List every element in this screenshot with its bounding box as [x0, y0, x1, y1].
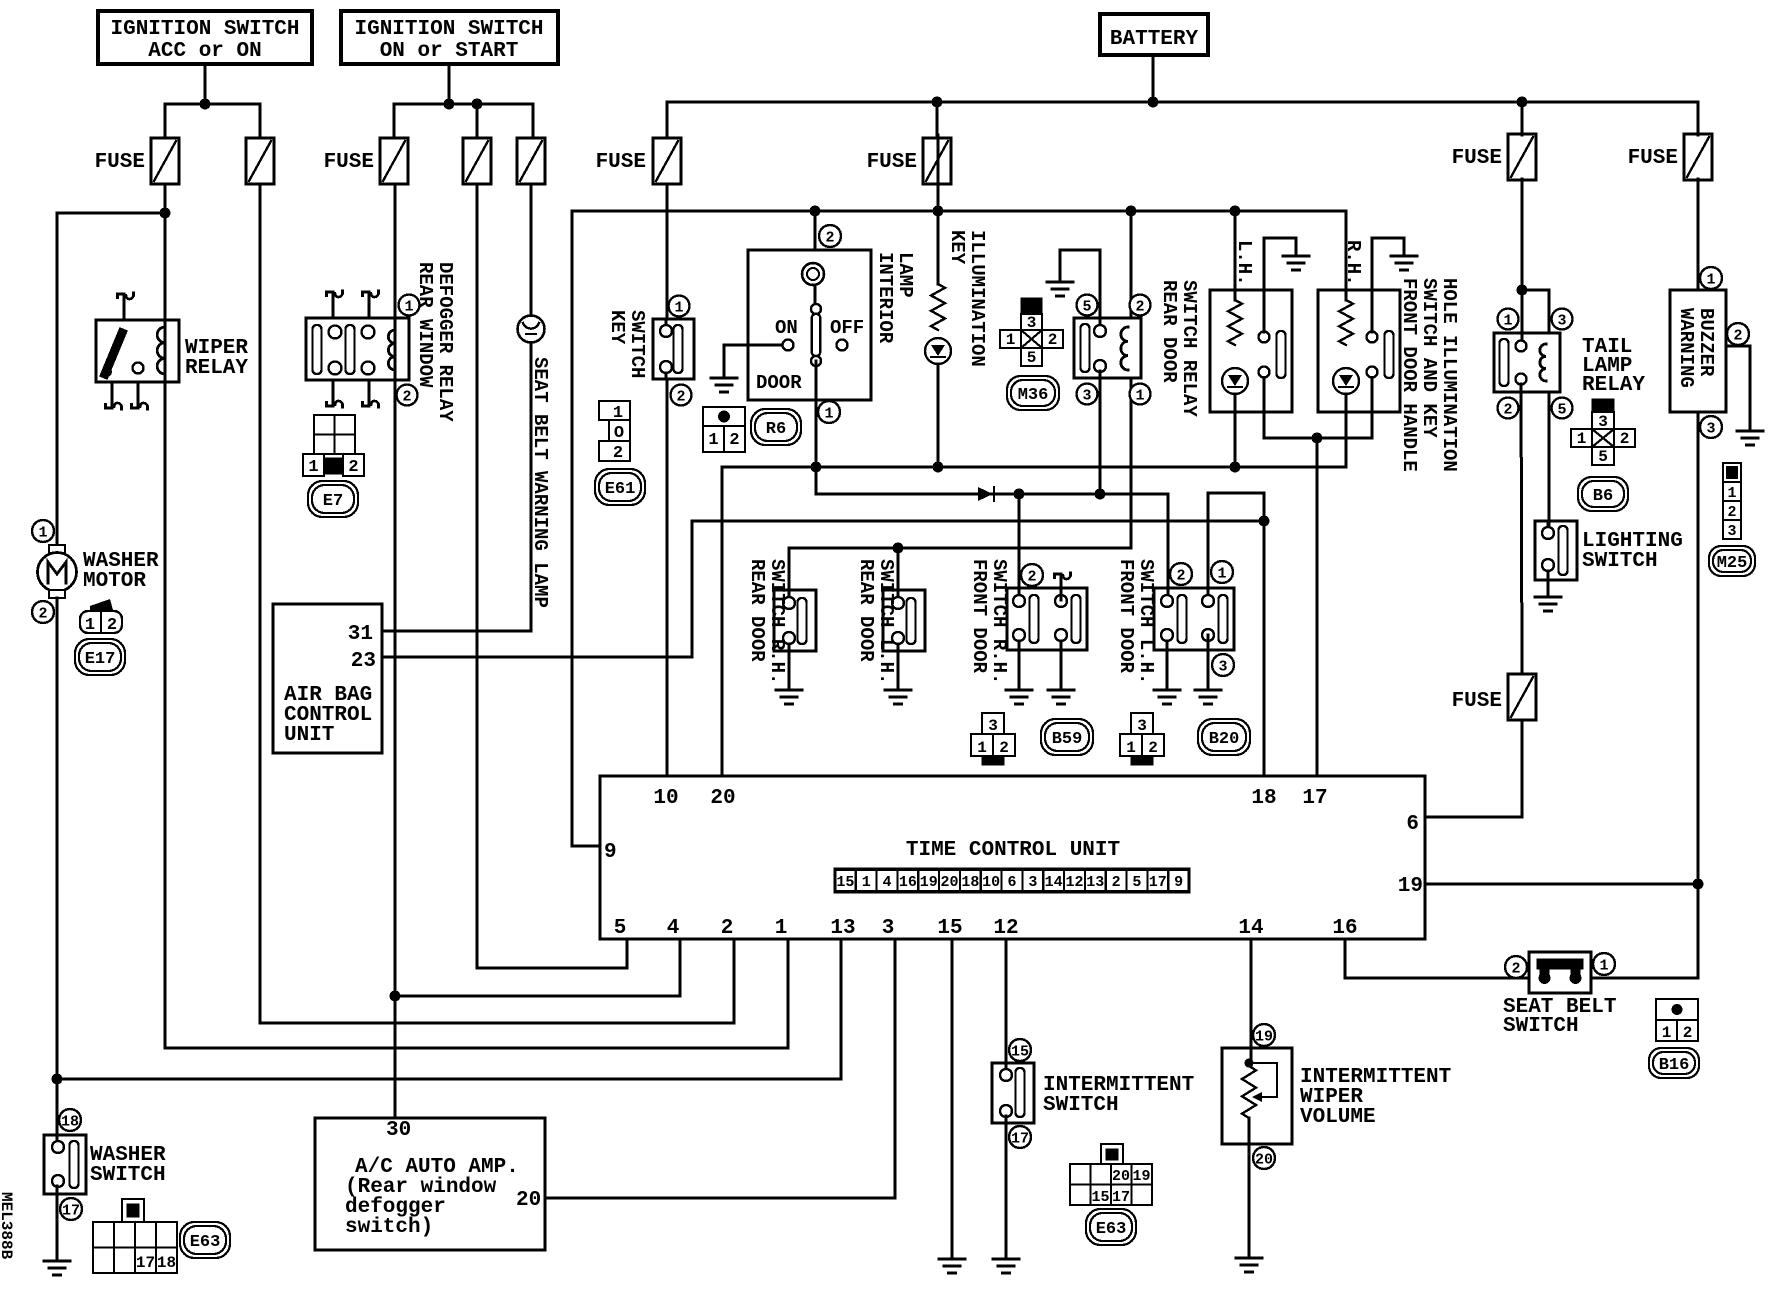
svg-text:1: 1	[85, 616, 95, 635]
svg-text:4: 4	[883, 874, 892, 891]
svg-text:3: 3	[1706, 420, 1715, 437]
svg-text:2: 2	[729, 431, 739, 450]
svg-text:18: 18	[961, 874, 979, 891]
svg-text:10: 10	[653, 787, 678, 810]
svg-text:1: 1	[404, 298, 413, 315]
svg-text:FRONT DOOR: FRONT DOOR	[1115, 559, 1137, 674]
svg-text:5: 5	[1027, 349, 1037, 367]
svg-text:5: 5	[1557, 401, 1566, 418]
svg-text:20: 20	[1112, 1168, 1130, 1185]
svg-text:15: 15	[1091, 1189, 1109, 1206]
svg-text:2: 2	[1733, 327, 1742, 344]
svg-text:FUSE: FUSE	[324, 151, 374, 174]
svg-text:19: 19	[1132, 1168, 1150, 1185]
svg-text:2: 2	[1135, 298, 1144, 315]
svg-text:5: 5	[614, 917, 627, 940]
svg-text:1: 1	[1006, 331, 1016, 349]
svg-text:FUSE: FUSE	[1628, 147, 1678, 170]
svg-text:REAR WINDOW: REAR WINDOW	[414, 262, 436, 388]
svg-text:INTERIOR: INTERIOR	[874, 252, 896, 344]
svg-text:18: 18	[157, 1254, 176, 1272]
svg-text:14: 14	[1238, 917, 1263, 940]
svg-text:KEY: KEY	[606, 310, 628, 345]
svg-text:BATTERY: BATTERY	[1110, 28, 1199, 51]
svg-text:2: 2	[721, 917, 734, 940]
svg-text:20: 20	[710, 787, 735, 810]
svg-text:E61: E61	[605, 480, 636, 499]
svg-text:1: 1	[775, 917, 788, 940]
svg-text:IGNITION SWITCH: IGNITION SWITCH	[110, 18, 299, 41]
svg-text:IGNITION SWITCH: IGNITION SWITCH	[354, 18, 543, 41]
svg-text:switch): switch)	[345, 1216, 433, 1239]
svg-text:SWITCH RELAY: SWITCH RELAY	[1178, 280, 1200, 417]
svg-text:3: 3	[1218, 658, 1227, 675]
svg-text:20: 20	[516, 1189, 541, 1212]
svg-text:SWITCH L.H.: SWITCH L.H.	[875, 559, 897, 684]
svg-text:17: 17	[136, 1254, 155, 1272]
svg-text:19: 19	[1398, 875, 1423, 898]
svg-text:17: 17	[1011, 1130, 1029, 1147]
svg-text:SWITCH: SWITCH	[1043, 1094, 1119, 1117]
svg-text:REAR DOOR: REAR DOOR	[1158, 280, 1180, 383]
svg-text:SWITCH AND KEY: SWITCH AND KEY	[1418, 278, 1440, 438]
svg-text:REAR DOOR: REAR DOOR	[746, 559, 768, 662]
svg-text:3: 3	[1082, 387, 1091, 404]
svg-text:ACC or ON: ACC or ON	[148, 40, 261, 63]
svg-text:2: 2	[107, 616, 117, 635]
svg-text:30: 30	[386, 1119, 411, 1142]
svg-text:4: 4	[667, 917, 680, 940]
svg-text:1: 1	[1126, 739, 1136, 757]
svg-text:MEL388B: MEL388B	[0, 1192, 15, 1260]
svg-text:ON: ON	[775, 317, 798, 339]
svg-text:WARNING: WARNING	[1675, 308, 1697, 388]
svg-text:1: 1	[1217, 565, 1226, 582]
svg-text:5: 5	[1082, 298, 1091, 315]
svg-text:B16: B16	[1659, 1056, 1690, 1075]
svg-text:2: 2	[1048, 331, 1058, 349]
svg-text:SWITCH: SWITCH	[1503, 1015, 1579, 1038]
svg-text:1: 1	[308, 458, 318, 477]
svg-text:1: 1	[38, 524, 47, 541]
svg-text:ILLUMINATION: ILLUMINATION	[966, 230, 988, 367]
svg-text:12: 12	[1065, 874, 1083, 891]
svg-text:2: 2	[38, 605, 47, 622]
svg-text:15: 15	[937, 917, 962, 940]
svg-text:2: 2	[1176, 567, 1185, 584]
svg-text:SWITCH R.H.: SWITCH R.H.	[988, 559, 1010, 684]
svg-text:1: 1	[1135, 387, 1144, 404]
svg-text:20: 20	[1255, 1151, 1273, 1168]
svg-text:M36: M36	[1018, 386, 1049, 405]
svg-text:E63: E63	[1096, 1220, 1127, 1239]
svg-text:1: 1	[1727, 485, 1736, 502]
svg-text:1: 1	[1577, 430, 1587, 448]
svg-text:15: 15	[1011, 1043, 1029, 1060]
svg-text:2: 2	[348, 458, 358, 477]
svg-text:FRONT DOOR HANDLE: FRONT DOOR HANDLE	[1398, 278, 1420, 472]
svg-text:RELAY: RELAY	[185, 357, 248, 380]
svg-text:19: 19	[1255, 1028, 1273, 1045]
svg-text:DEFOGGER RELAY: DEFOGGER RELAY	[434, 262, 456, 422]
svg-text:2: 2	[1511, 960, 1520, 977]
svg-text:2: 2	[825, 229, 834, 246]
svg-text:FUSE: FUSE	[1452, 690, 1502, 713]
svg-text:B59: B59	[1052, 730, 1083, 749]
svg-text:6: 6	[1007, 874, 1016, 891]
svg-text:3: 3	[1727, 523, 1736, 540]
svg-text:SWITCH: SWITCH	[90, 1164, 166, 1187]
svg-text:2: 2	[1503, 401, 1512, 418]
svg-text:14: 14	[1045, 874, 1063, 891]
svg-text:2: 2	[1148, 739, 1158, 757]
svg-text:R6: R6	[766, 420, 786, 439]
svg-text:17: 17	[1302, 787, 1327, 810]
svg-text:3: 3	[1557, 312, 1566, 329]
svg-text:2: 2	[1027, 568, 1036, 585]
svg-text:B6: B6	[1593, 487, 1613, 506]
svg-text:FRONT DOOR: FRONT DOOR	[968, 559, 990, 674]
svg-text:2: 2	[1112, 874, 1121, 891]
svg-text:FUSE: FUSE	[95, 151, 145, 174]
svg-text:18: 18	[61, 1113, 79, 1130]
svg-text:12: 12	[993, 917, 1018, 940]
svg-text:FUSE: FUSE	[1452, 147, 1502, 170]
svg-text:5: 5	[1132, 874, 1141, 891]
svg-text:2: 2	[999, 739, 1009, 757]
svg-text:16: 16	[899, 874, 917, 891]
svg-text:2: 2	[402, 388, 411, 405]
svg-text:18: 18	[1251, 787, 1276, 810]
svg-text:KEY: KEY	[946, 230, 968, 265]
svg-text:REAR DOOR: REAR DOOR	[855, 559, 877, 662]
svg-text:3: 3	[882, 917, 895, 940]
svg-text:23: 23	[351, 650, 376, 673]
svg-text:SWITCH: SWITCH	[626, 310, 648, 378]
svg-text:B20: B20	[1209, 730, 1240, 749]
svg-text:1: 1	[862, 874, 871, 891]
svg-text:FUSE: FUSE	[596, 151, 646, 174]
svg-text:17: 17	[62, 1202, 80, 1219]
svg-text:SEAT BELT WARNING LAMP: SEAT BELT WARNING LAMP	[529, 357, 551, 608]
svg-text:3: 3	[988, 717, 998, 735]
svg-text:13: 13	[1086, 874, 1104, 891]
svg-text:RELAY: RELAY	[1582, 374, 1645, 397]
svg-text:E17: E17	[85, 650, 116, 669]
svg-text:E7: E7	[323, 492, 343, 511]
svg-text:1: 1	[708, 431, 718, 450]
svg-text:BUZZER: BUZZER	[1695, 308, 1717, 377]
svg-text:VOLUME: VOLUME	[1300, 1106, 1376, 1129]
svg-text:M25: M25	[1717, 554, 1748, 573]
svg-text:1: 1	[674, 299, 683, 316]
svg-text:HOLE ILLUMINATION: HOLE ILLUMINATION	[1438, 278, 1460, 472]
svg-text:2: 2	[1683, 1024, 1693, 1042]
svg-text:MOTOR: MOTOR	[83, 570, 146, 593]
svg-text:DOOR: DOOR	[756, 372, 802, 394]
svg-text:5: 5	[1598, 448, 1608, 466]
svg-text:LAMP: LAMP	[894, 252, 916, 298]
svg-text:SWITCH: SWITCH	[1582, 550, 1658, 573]
svg-text:1: 1	[824, 405, 833, 422]
svg-text:17: 17	[1112, 1189, 1130, 1206]
svg-text:2: 2	[1620, 430, 1630, 448]
svg-text:9: 9	[604, 841, 617, 864]
svg-text:2: 2	[1727, 504, 1736, 521]
svg-text:1: 1	[1662, 1024, 1672, 1042]
svg-text:3: 3	[1028, 874, 1037, 891]
svg-text:13: 13	[830, 917, 855, 940]
svg-text:15: 15	[836, 874, 854, 891]
svg-text:FUSE: FUSE	[867, 151, 917, 174]
svg-text:2: 2	[676, 388, 685, 405]
svg-text:2: 2	[613, 444, 623, 463]
svg-text:1: 1	[977, 739, 987, 757]
svg-text:ON or START: ON or START	[380, 40, 519, 63]
svg-text:1: 1	[1599, 957, 1608, 974]
svg-text:UNIT: UNIT	[284, 724, 334, 747]
svg-text:10: 10	[982, 874, 1000, 891]
svg-text:1: 1	[1706, 271, 1715, 288]
svg-text:9: 9	[1174, 874, 1183, 891]
svg-text:SWITCH R.H.: SWITCH R.H.	[766, 559, 788, 684]
svg-text:19: 19	[920, 874, 938, 891]
svg-text:SWITCH L.H.: SWITCH L.H.	[1135, 559, 1157, 684]
svg-text:E63: E63	[190, 1233, 221, 1252]
svg-text:6: 6	[1406, 813, 1419, 836]
svg-text:TIME CONTROL UNIT: TIME CONTROL UNIT	[906, 839, 1120, 862]
svg-text:OFF: OFF	[830, 317, 864, 339]
svg-text:31: 31	[348, 623, 373, 646]
svg-text:16: 16	[1332, 917, 1357, 940]
svg-text:20: 20	[941, 874, 959, 891]
svg-text:1: 1	[1503, 312, 1512, 329]
svg-text:3: 3	[1137, 717, 1147, 735]
svg-text:17: 17	[1149, 874, 1167, 891]
